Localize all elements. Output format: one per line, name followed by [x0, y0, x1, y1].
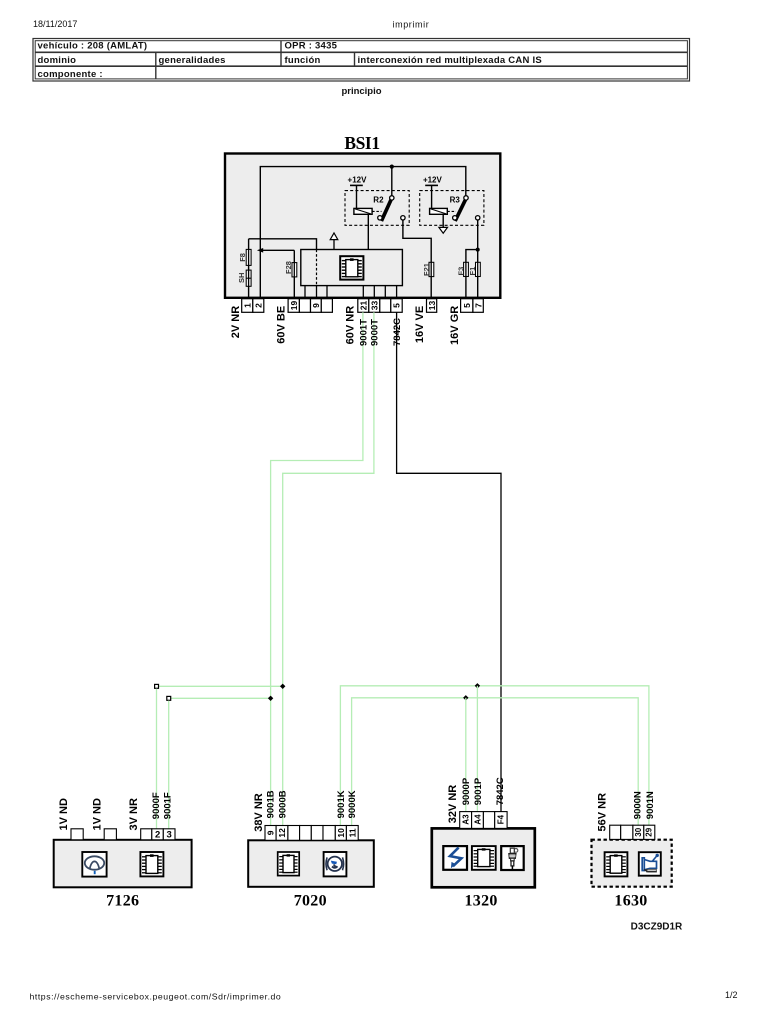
svg-text:F28: F28 — [284, 261, 293, 274]
fuse F28 — [292, 263, 297, 277]
svg-text:16V GR: 16V GR — [449, 306, 461, 345]
relay R3 dashed box — [420, 191, 484, 226]
svg-text:3: 3 — [167, 830, 172, 841]
svg-text:1/2: 1/2 — [725, 990, 738, 1000]
7020 box — [248, 840, 374, 887]
svg-text:9000B: 9000B — [277, 790, 288, 818]
relay R2 dashed link — [372, 210, 381, 212]
svg-text:F4: F4 — [497, 814, 506, 824]
wire from R2 output to F21 — [403, 220, 431, 299]
wire V1 through fuses — [248, 239, 250, 299]
7020 wire labels — [265, 790, 358, 818]
svg-text:función: función — [285, 55, 321, 66]
shunt SH — [246, 270, 251, 286]
svg-text:1: 1 — [243, 303, 253, 308]
svg-text:1V ND: 1V ND — [91, 798, 103, 830]
svg-text:A3: A3 — [462, 814, 471, 825]
svg-text:38V NR: 38V NR — [253, 793, 265, 832]
junction diamond 9000P — [463, 695, 468, 700]
svg-text:F3: F3 — [456, 267, 465, 276]
pin 2 — [253, 299, 264, 313]
svg-text:generalidades: generalidades — [159, 55, 226, 66]
module chip icon — [340, 256, 363, 279]
svg-text:13: 13 — [427, 301, 437, 311]
relay R3 contacts — [464, 196, 468, 200]
pin blank b — [321, 299, 332, 313]
7020 pin 9 — [265, 826, 276, 841]
up-arrow symbol on module — [333, 240, 335, 250]
svg-text:interconexión red multiplexada: interconexión red multiplexada CAN IS — [358, 55, 543, 66]
pin 5a — [391, 299, 402, 313]
7020 chip icon — [278, 852, 300, 876]
svg-text:30: 30 — [634, 827, 643, 836]
dashed wire inside module — [316, 250, 318, 286]
svg-text:BSI1: BSI1 — [344, 133, 379, 153]
fuse F1 — [476, 262, 481, 276]
svg-text:1630: 1630 — [614, 892, 647, 909]
BSI wire labels — [358, 318, 403, 346]
svg-text:F21: F21 — [422, 263, 431, 276]
7126 box — [54, 840, 192, 888]
1320 pin A4 — [472, 812, 484, 829]
svg-text:vehículo : 208 (AMLAT): vehículo : 208 (AMLAT) — [38, 41, 148, 52]
relay R3 dashed link — [447, 210, 456, 212]
svg-text:+12V: +12V — [423, 175, 443, 184]
wire branch to F3 — [466, 250, 478, 299]
junction arrow on H2 — [257, 248, 263, 253]
1320 pins — [460, 812, 507, 829]
7020 pin 12 — [276, 826, 288, 841]
relay R3 coil ground arrow — [442, 214, 444, 227]
svg-text:1320: 1320 — [464, 892, 497, 909]
pin 9 — [311, 299, 322, 313]
svg-text:F1: F1 — [468, 267, 477, 276]
1320 box — [432, 828, 535, 887]
pin 5b — [461, 299, 473, 313]
svg-text:2: 2 — [155, 830, 160, 841]
svg-text:18/11/2017: 18/11/2017 — [33, 19, 77, 29]
pin 13 — [427, 299, 437, 313]
net 9001K/9001P/9001N horizontal — [340, 686, 649, 826]
1630 pins — [610, 825, 655, 839]
svg-text:9000T: 9000T — [369, 319, 380, 346]
wire down to 7126 pin2 — [156, 689, 158, 829]
junction diamond 9000 — [280, 684, 285, 689]
svg-text:33: 33 — [370, 301, 380, 311]
1630 pin 30 — [633, 825, 644, 839]
fuse F8 — [246, 249, 251, 265]
svg-text:SH: SH — [237, 273, 246, 283]
svg-text:9001N: 9001N — [645, 791, 656, 819]
svg-text:7842C: 7842C — [495, 777, 506, 805]
svg-text:12: 12 — [277, 828, 287, 838]
svg-text:56V NR: 56V NR — [597, 793, 609, 832]
pin 21 — [358, 299, 369, 313]
1630 pin 29 — [644, 825, 655, 839]
svg-text:5: 5 — [392, 303, 402, 308]
node junction on H0 — [390, 165, 394, 169]
table row separator 1 — [35, 51, 687, 53]
svg-text:21: 21 — [359, 301, 369, 311]
svg-text:A4: A4 — [473, 814, 482, 825]
svg-text:11: 11 — [347, 828, 357, 837]
svg-text:R2: R2 — [373, 195, 384, 204]
svg-text:F8: F8 — [238, 253, 247, 262]
7020 pin 10 — [335, 826, 346, 841]
svg-text:1V ND: 1V ND — [58, 798, 70, 830]
svg-text:9001P: 9001P — [473, 777, 484, 805]
table column line row3 — [155, 66, 157, 79]
svg-text:9000F: 9000F — [151, 792, 162, 819]
svg-text:29: 29 — [645, 827, 654, 836]
svg-text:componente :: componente : — [38, 69, 103, 80]
1630 horn icon — [639, 852, 661, 876]
7126 pin 2 — [152, 829, 164, 840]
pin blank a — [299, 299, 310, 313]
1320 pin A3 — [460, 812, 472, 829]
1320 chip icon — [472, 846, 496, 870]
BSI1 box — [225, 154, 500, 298]
net 9000K/9000P/9000N horizontal — [352, 698, 639, 826]
wire H1 to dashed entry — [249, 239, 317, 250]
7126 chip icon — [140, 852, 163, 876]
svg-text:R3: R3 — [450, 195, 461, 204]
relay R2 contacts — [390, 196, 394, 200]
pin numbers — [243, 301, 484, 311]
junction diamond 9001P — [475, 683, 480, 688]
wire from R3 output through F1 — [477, 220, 479, 299]
svg-text:7020: 7020 — [294, 892, 327, 909]
svg-text:32V NR: 32V NR — [447, 785, 459, 824]
7020 pins — [265, 826, 358, 841]
node junction F3 branch — [476, 248, 480, 252]
svg-text:OPR : 3435: OPR : 3435 — [285, 41, 338, 52]
svg-text:imprimir: imprimir — [393, 20, 430, 30]
terminal square 9001F — [167, 696, 171, 700]
pin 1 — [242, 299, 253, 313]
1320 pin F4 — [495, 812, 507, 829]
svg-text:D3CZ9D1R: D3CZ9D1R — [631, 921, 683, 932]
svg-text:9001K: 9001K — [336, 790, 347, 818]
svg-text:2: 2 — [254, 303, 264, 308]
terminal square 9000F — [155, 684, 159, 688]
svg-text:principio: principio — [341, 86, 381, 97]
7020 pin 11 — [346, 826, 358, 841]
table column line row1 — [280, 41, 282, 53]
pin 33 — [369, 299, 380, 313]
net 9000F horizontal — [157, 685, 283, 687]
svg-text:dominio: dominio — [38, 55, 77, 66]
7126 gauge icon — [82, 852, 106, 877]
svg-text:9000K: 9000K — [347, 790, 358, 818]
svg-text:9: 9 — [311, 303, 321, 308]
relay R3 switch blade — [455, 199, 466, 221]
wire down to 7126 pin3 — [168, 701, 170, 829]
7020 speed sensor icon — [324, 852, 347, 876]
1630 dashed box — [592, 840, 672, 887]
svg-text:60V BE: 60V BE — [276, 306, 288, 344]
7126 harness labels — [58, 798, 140, 830]
wire 7842C black run — [397, 312, 501, 811]
wire 9001T green run — [271, 312, 363, 825]
pin blank c — [380, 299, 391, 313]
svg-text:16V VE: 16V VE — [414, 306, 426, 343]
wire down to 1320 A4 — [476, 686, 478, 812]
svg-text:+12V: +12V — [348, 175, 368, 184]
svg-text:9000N: 9000N — [633, 791, 644, 819]
relay R3 coil — [430, 208, 448, 214]
svg-text:9: 9 — [266, 830, 276, 835]
table row separator 2 — [35, 65, 687, 67]
1630 wire labels — [633, 791, 656, 819]
1320 wire labels — [461, 777, 506, 805]
relay R2 switch blade — [381, 199, 391, 221]
1630 chip icon — [605, 852, 628, 876]
1320 lightning icon — [443, 846, 467, 870]
svg-text:9001B: 9001B — [265, 790, 276, 818]
header table outer border — [33, 39, 690, 82]
svg-text:7126: 7126 — [106, 892, 139, 909]
svg-text:3V NR: 3V NR — [128, 798, 140, 830]
junction diamond 9001 — [268, 696, 273, 701]
pin 7 — [473, 299, 483, 313]
internal module box — [301, 250, 403, 286]
module pin stubs — [305, 286, 397, 299]
7126 pins — [71, 829, 175, 840]
net 9001F horizontal — [169, 697, 271, 699]
fuse F3 — [464, 262, 469, 276]
1320 spark plug icon — [501, 846, 524, 870]
svg-text:9001F: 9001F — [163, 792, 174, 819]
table column lines row2 — [155, 52, 157, 66]
svg-text:19: 19 — [289, 301, 299, 311]
wire 9000T green run — [283, 312, 374, 825]
svg-text:https://escheme-servicebox.peu: https://escheme-servicebox.peugeot.com/S… — [30, 992, 282, 1002]
svg-text:7: 7 — [473, 303, 483, 308]
relay R2 dashed box — [345, 191, 409, 226]
pin 19 — [288, 299, 299, 313]
7126 pin 3 — [163, 829, 175, 840]
wire down to 1320 A3 — [465, 698, 467, 812]
svg-text:5: 5 — [462, 303, 472, 308]
fuse F21 — [429, 262, 434, 276]
wire H2 with arrow — [260, 249, 295, 251]
wire drop to R2 switch — [391, 167, 393, 196]
wire H0 top horizontal — [260, 167, 466, 298]
svg-text:10: 10 — [336, 828, 346, 838]
svg-text:9001T: 9001T — [358, 319, 369, 346]
svg-text:60V NR: 60V NR — [345, 306, 357, 345]
relay R2 coil wire to module — [367, 214, 369, 249]
relay R2 coil — [354, 208, 372, 214]
svg-text:9000P: 9000P — [461, 777, 472, 805]
7126 wire labels — [151, 792, 174, 819]
svg-text:2V NR: 2V NR — [230, 306, 242, 338]
svg-text:7842C: 7842C — [392, 318, 403, 346]
wire V F28 — [293, 250, 295, 298]
